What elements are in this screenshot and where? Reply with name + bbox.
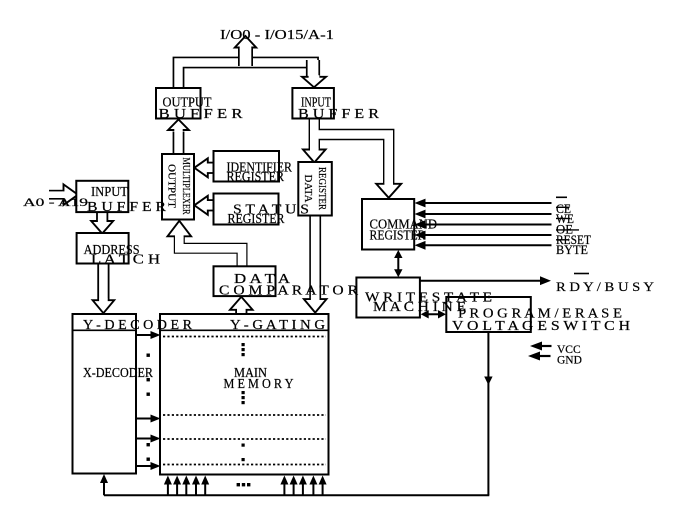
svg-text:REGISTER: REGISTER bbox=[316, 167, 328, 211]
x-decoder / y-decoder block bbox=[73, 314, 137, 474]
output multiplexer rotated label bbox=[166, 158, 193, 215]
wire WE into COMMAND REGISTER bbox=[415, 210, 552, 219]
svg-text:DATA: DATA bbox=[302, 175, 314, 203]
dashed bit line row 2 bbox=[163, 414, 326, 416]
wire source line arrows group 2 into memory bottom bbox=[280, 476, 326, 496]
wire CE into COMMAND REGISTER bbox=[415, 199, 552, 208]
svg-text:V O L T A G E S W I T C H: V O L T A G E S W I T C H bbox=[452, 318, 631, 333]
identifier register bbox=[214, 151, 280, 182]
y-gating strip line bbox=[160, 329, 329, 331]
wire bus DATA COMPARATOR to OUTPUT MULTIPLEXER bbox=[168, 221, 243, 267]
svg-text:C O M P A R A T O R: C O M P A R A T O R bbox=[219, 283, 358, 298]
wire COMMAND REGISTER to WRITE STATE MACHINE bidirectional bbox=[394, 250, 402, 277]
wire bus OUTPUT MULTIPLEXER to OUTPUT BUFFER bbox=[168, 120, 189, 156]
wire OE into COMMAND REGISTER bbox=[415, 220, 552, 229]
memory column ellipsis dots bbox=[242, 343, 245, 461]
svg-text:Y - G A T I N G: Y - G A T I N G bbox=[230, 317, 326, 332]
wire source line arrows group 1 into memory bottom bbox=[164, 476, 209, 496]
node RDY/BUSY label bbox=[556, 274, 655, 295]
svg-text:B U F F E R: B U F F E R bbox=[298, 106, 379, 121]
wire bus neck and down arrow into INPUT BUFFER bbox=[302, 60, 326, 87]
svg-text:REGISTER: REGISTER bbox=[227, 169, 285, 184]
wire VOLTAGE SWITCH to bottom supply rail bbox=[484, 332, 492, 495]
wire bus STATUS REGISTER to OUTPUT MULTIPLEXER bbox=[194, 196, 214, 215]
svg-text:GND: GND bbox=[557, 355, 582, 367]
node OE label bbox=[556, 223, 579, 237]
word line ellipsis dots in decoder gap bbox=[147, 354, 150, 461]
dashed bit line row 3 bbox=[163, 438, 326, 440]
wire bus A0-A19 into INPUT BUFFER bbox=[49, 184, 78, 205]
wire bus OUTPUT BUFFER to I/O pads (up arrow) bbox=[179, 63, 314, 90]
dashed bit line row 4 bbox=[163, 464, 326, 466]
status register bbox=[214, 194, 279, 225]
wire VCC input bbox=[530, 342, 552, 351]
write state machine bbox=[356, 278, 420, 318]
wire bus ADDRESS LATCH to Y-DECODER bbox=[93, 264, 115, 313]
svg-text:I/O0 - I/O15/A-1: I/O0 - I/O15/A-1 bbox=[220, 28, 334, 43]
wire word line arrow 1 X-DECODER to memory bbox=[136, 331, 161, 339]
wire RDY/BUSY output bbox=[420, 276, 551, 285]
data register rotated label bbox=[302, 167, 328, 211]
input buffer (address) bbox=[76, 181, 128, 212]
dashed bit line row 1 bbox=[163, 336, 326, 338]
svg-text:M A C H I N E: M A C H I N E bbox=[373, 299, 466, 314]
svg-text:B U F F E R: B U F F E R bbox=[159, 106, 243, 121]
wire bus neck and up arrow to I/O pads bbox=[235, 36, 256, 66]
wire bottom supply rail bbox=[104, 494, 489, 496]
wire bus INPUT BUFFER to DATA REGISTER and branch to COMMAND REGISTER bbox=[303, 119, 401, 198]
ellipsis dots on bottom rail bbox=[237, 483, 251, 486]
svg-text:BYTE: BYTE bbox=[556, 243, 588, 257]
wire WRITE STATE MACHINE to VOLTAGE SWITCH bidirectional bbox=[421, 310, 446, 318]
svg-text:OUTPUT: OUTPUT bbox=[166, 164, 178, 208]
output buffer bbox=[156, 88, 201, 119]
wire GND input bbox=[528, 352, 551, 361]
wire word line arrow 3 X-DECODER to memory bbox=[136, 435, 161, 443]
svg-text:MULTIPLEXER: MULTIPLEXER bbox=[180, 158, 192, 215]
svg-text:R D Y / B U S Y: R D Y / B U S Y bbox=[556, 279, 655, 294]
y-decoder strip line bbox=[73, 329, 137, 331]
svg-text:Y - D E C O D E R: Y - D E C O D E R bbox=[83, 317, 192, 332]
svg-text:INPUT: INPUT bbox=[91, 184, 128, 199]
wire bus DATA REGISTER to Y-GATING bbox=[304, 216, 327, 313]
node CE label bbox=[556, 197, 571, 216]
svg-text:M E M O R Y: M E M O R Y bbox=[224, 376, 294, 391]
wire RESET into COMMAND REGISTER bbox=[415, 231, 552, 240]
wire word line arrow 2 X-DECODER to memory bbox=[136, 415, 161, 423]
wire bus IDENTIFIER REGISTER to OUTPUT MULTIPLEXER bbox=[194, 158, 214, 177]
data register bbox=[298, 162, 332, 216]
input buffer (data) bbox=[292, 88, 334, 119]
svg-text:REGISTER: REGISTER bbox=[228, 211, 285, 226]
wire bus Y-GATING to DATA COMPARATOR bbox=[230, 297, 253, 314]
svg-text:X-DECODER: X-DECODER bbox=[83, 365, 153, 380]
address latch bbox=[77, 233, 129, 264]
node RESET label bbox=[556, 233, 591, 247]
svg-text:B U F F E R: B U F F E R bbox=[87, 199, 166, 214]
wire BYTE into COMMAND REGISTER bbox=[415, 241, 552, 250]
program/erase voltage switch bbox=[446, 297, 531, 332]
command register bbox=[362, 199, 414, 250]
data comparator bbox=[214, 266, 276, 296]
wire word line arrow 4 X-DECODER to memory bbox=[136, 462, 161, 470]
wire rail arrow into X-DECODER bottom bbox=[100, 474, 108, 495]
main memory block bbox=[160, 314, 329, 475]
wire bus INPUT BUFFER to ADDRESS LATCH bbox=[91, 213, 113, 234]
output multiplexer bbox=[162, 154, 194, 220]
svg-text:L A T C H: L A T C H bbox=[91, 252, 161, 267]
node WE label bbox=[556, 212, 574, 226]
svg-text:A0 - A19: A0 - A19 bbox=[23, 197, 88, 209]
